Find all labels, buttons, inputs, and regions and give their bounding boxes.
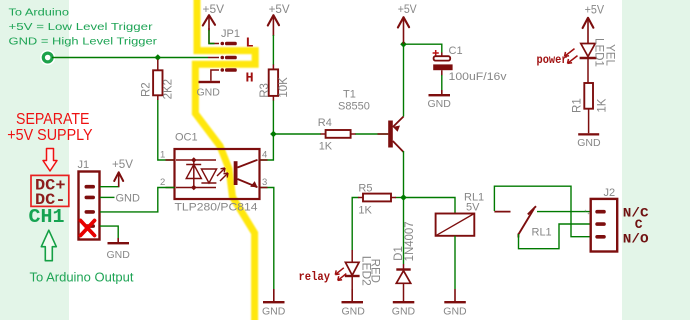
wire T1 collector down to node (403, 151, 405, 198)
node junction collector R5 RL1 D1 (400, 194, 407, 201)
relay contact RL1 switch (494, 206, 551, 238)
op-amp U1 optocoupler OC1 box (175, 132, 260, 214)
annotation DC+ DC- box (31, 175, 69, 209)
svg-text:S8550: S8550 (338, 101, 370, 113)
svg-text:4: 4 (262, 150, 267, 161)
svg-text:2K2: 2K2 (162, 79, 174, 99)
svg-text:N/O: N/O (623, 232, 649, 247)
annotation power text (537, 54, 568, 67)
svg-text:R3: R3 (259, 83, 271, 98)
svg-text:+5V = Low Level Trigger: +5V = Low Level Trigger (9, 21, 154, 33)
label C (635, 217, 643, 232)
wire J1 pin4 to ground (100, 226, 118, 238)
svg-text:L: L (246, 37, 254, 52)
wire J1 pin2 to GND label (100, 193, 140, 205)
ground GND RL1 (443, 289, 467, 318)
wire trigger input to JP1 middle (52, 57, 208, 59)
svg-text:3: 3 (262, 177, 267, 188)
svg-text:power: power (537, 54, 568, 67)
power +5V supply arrow C1/T1 (398, 2, 417, 44)
svg-text:GND: GND (262, 306, 286, 318)
svg-text:SEPARATE: SEPARATE (16, 111, 90, 128)
node junction R2 top (155, 54, 162, 61)
annotation To Arduino Output (30, 269, 134, 284)
wire relay NC loop to J2 pin3 (494, 186, 590, 237)
svg-text:5V: 5V (466, 202, 480, 214)
svg-text:1: 1 (160, 150, 165, 161)
ground GND J1 (107, 238, 131, 261)
svg-text:1K: 1K (597, 98, 609, 112)
resistor R4 (318, 117, 351, 152)
svg-text:GND: GND (443, 306, 467, 318)
capacitor C1 polarized (433, 45, 507, 83)
svg-text:+5V: +5V (398, 2, 417, 16)
OC1 light arrows (217, 168, 228, 181)
svg-text:100uF/16v: 100uF/16v (449, 71, 508, 83)
svg-text:GND: GND (342, 306, 366, 318)
svg-text:GND: GND (107, 249, 131, 261)
svg-text:CH1: CH1 (29, 206, 65, 228)
svg-text:1K: 1K (358, 205, 372, 217)
ground GND JP1 pin H (197, 81, 221, 99)
ground GND R1 (577, 133, 601, 149)
node junction R3 R4 OC1 (270, 131, 277, 138)
power +5V supply arrow J1 (112, 157, 133, 187)
wire R4 to T1 base (351, 133, 388, 135)
background left pale strip (0, 0, 69, 320)
annotation CH1 (29, 206, 65, 228)
node trigger input open circle (41, 51, 55, 65)
wire R2 bottom to OC1 pin1 (158, 95, 175, 160)
resistor R5 (358, 183, 403, 217)
annotation green up arrow (41, 230, 56, 261)
wire J1 pin1 to +5V (100, 182, 119, 187)
svg-text:10K: 10K (278, 77, 290, 98)
wire relay arm to J2 pin1 (537, 211, 591, 213)
svg-text:R2: R2 (140, 82, 152, 97)
svg-text:OC1: OC1 (175, 132, 198, 144)
diode D1 1N4007 (393, 198, 416, 302)
wire OC1 pin3 to ground (260, 188, 274, 290)
connector J1 (78, 159, 100, 240)
wire coil to ground (454, 236, 456, 289)
jumper JP1 (208, 28, 240, 81)
LED LED2 RED (345, 250, 381, 289)
wire junction to C1 (404, 44, 442, 56)
svg-text:To Arduino Output: To Arduino Output (30, 269, 134, 284)
resistor R2 (140, 60, 174, 100)
svg-text:1N4007: 1N4007 (404, 221, 416, 261)
svg-text:GND: GND (428, 98, 452, 110)
svg-text:GND: GND (197, 87, 221, 99)
svg-text:J2: J2 (604, 187, 616, 199)
wire node to relay coil (404, 198, 456, 214)
wire junction to R4 (273, 133, 325, 135)
svg-text:GND: GND (577, 137, 601, 149)
node junction +5V C1 (400, 41, 407, 48)
wire C1 to ground (441, 70, 443, 91)
pin 2 label OC1 (160, 177, 165, 188)
svg-text:LED1: LED1 (593, 38, 605, 67)
svg-text:T1: T1 (343, 89, 356, 101)
svg-text:+5V: +5V (112, 157, 133, 171)
svg-text:C: C (635, 217, 643, 232)
svg-text:H: H (246, 71, 254, 86)
wire T1 emitter to +5V junction (403, 44, 405, 116)
svg-text:C1: C1 (449, 45, 463, 57)
svg-text:+5V: +5V (269, 2, 290, 16)
power +5V supply arrow LED1 (583, 2, 605, 43)
svg-text:2: 2 (160, 177, 165, 188)
label L red (246, 37, 254, 52)
pin 3 label OC1 (262, 177, 267, 188)
svg-text:GND: GND (392, 306, 416, 318)
wire R3 bottom to junction and OC1 pin4 (260, 96, 274, 160)
resistor R3 (259, 69, 290, 97)
ground GND C1 (428, 90, 452, 110)
svg-text:R5: R5 (358, 183, 372, 195)
ground GND OC1 (262, 289, 286, 318)
ground GND LED2 (342, 289, 366, 318)
annotation power red arrows (565, 49, 578, 64)
svg-text:relay: relay (299, 271, 331, 284)
wire R1 to ground (588, 109, 590, 134)
resistor R1 (572, 83, 609, 113)
annotation relay red arrows (335, 268, 346, 281)
LED LED1 YEL (580, 38, 616, 83)
svg-text:+5V: +5V (585, 2, 605, 16)
svg-text:RED: RED (368, 259, 380, 283)
annotation SEPARATE +5V SUPPLY (7, 111, 92, 144)
highlighted net (yellow freehand) (195, 0, 255, 320)
svg-text:J1: J1 (78, 159, 90, 171)
connector J2 (585, 187, 618, 252)
OC1 pin stubs (166, 160, 268, 188)
svg-text:YEL: YEL (604, 44, 616, 66)
label N/C (623, 206, 649, 221)
svg-text:TLP280/PC814: TLP280/PC814 (175, 202, 258, 214)
svg-text:+5V SUPPLY: +5V SUPPLY (7, 127, 92, 144)
label H red (246, 71, 254, 86)
power +5V supply arrow R3 (268, 2, 290, 36)
svg-text:To Arduino: To Arduino (9, 7, 70, 19)
annotation red X on J1 pin4 (81, 221, 95, 236)
svg-text:GND = High Level Trigger: GND = High Level Trigger (9, 36, 158, 48)
OC1 phototransistor (234, 160, 258, 188)
annotation red down arrow (43, 149, 57, 172)
svg-text:RL1: RL1 (532, 226, 552, 238)
label N/O (623, 232, 649, 247)
pin 4 label OC1 (262, 150, 267, 161)
background right pale strip (622, 0, 690, 320)
relay coil RL1 5V (436, 192, 485, 236)
OC1 internal LEDs (176, 157, 217, 190)
transistor T1 S8550 (338, 89, 404, 153)
wire J1 pin3 to OC1 pin2 (100, 188, 175, 212)
svg-text:GND: GND (116, 193, 141, 205)
svg-text:R1: R1 (572, 98, 584, 113)
svg-text:JP1: JP1 (221, 28, 240, 40)
svg-text:R4: R4 (318, 117, 332, 129)
annotation To Arduino text (9, 7, 158, 48)
svg-text:+5V: +5V (203, 2, 225, 16)
annotation relay text (299, 271, 331, 284)
wire relay pole to J2 pin2 (519, 224, 591, 249)
power +5V supply arrow JP1 (203, 2, 225, 43)
wire R3 top (272, 35, 274, 69)
pin 1 label OC1 (160, 150, 165, 161)
wire R5 to LED2 (352, 198, 363, 251)
svg-text:1K: 1K (319, 141, 333, 153)
ground GND D1 (392, 301, 416, 318)
